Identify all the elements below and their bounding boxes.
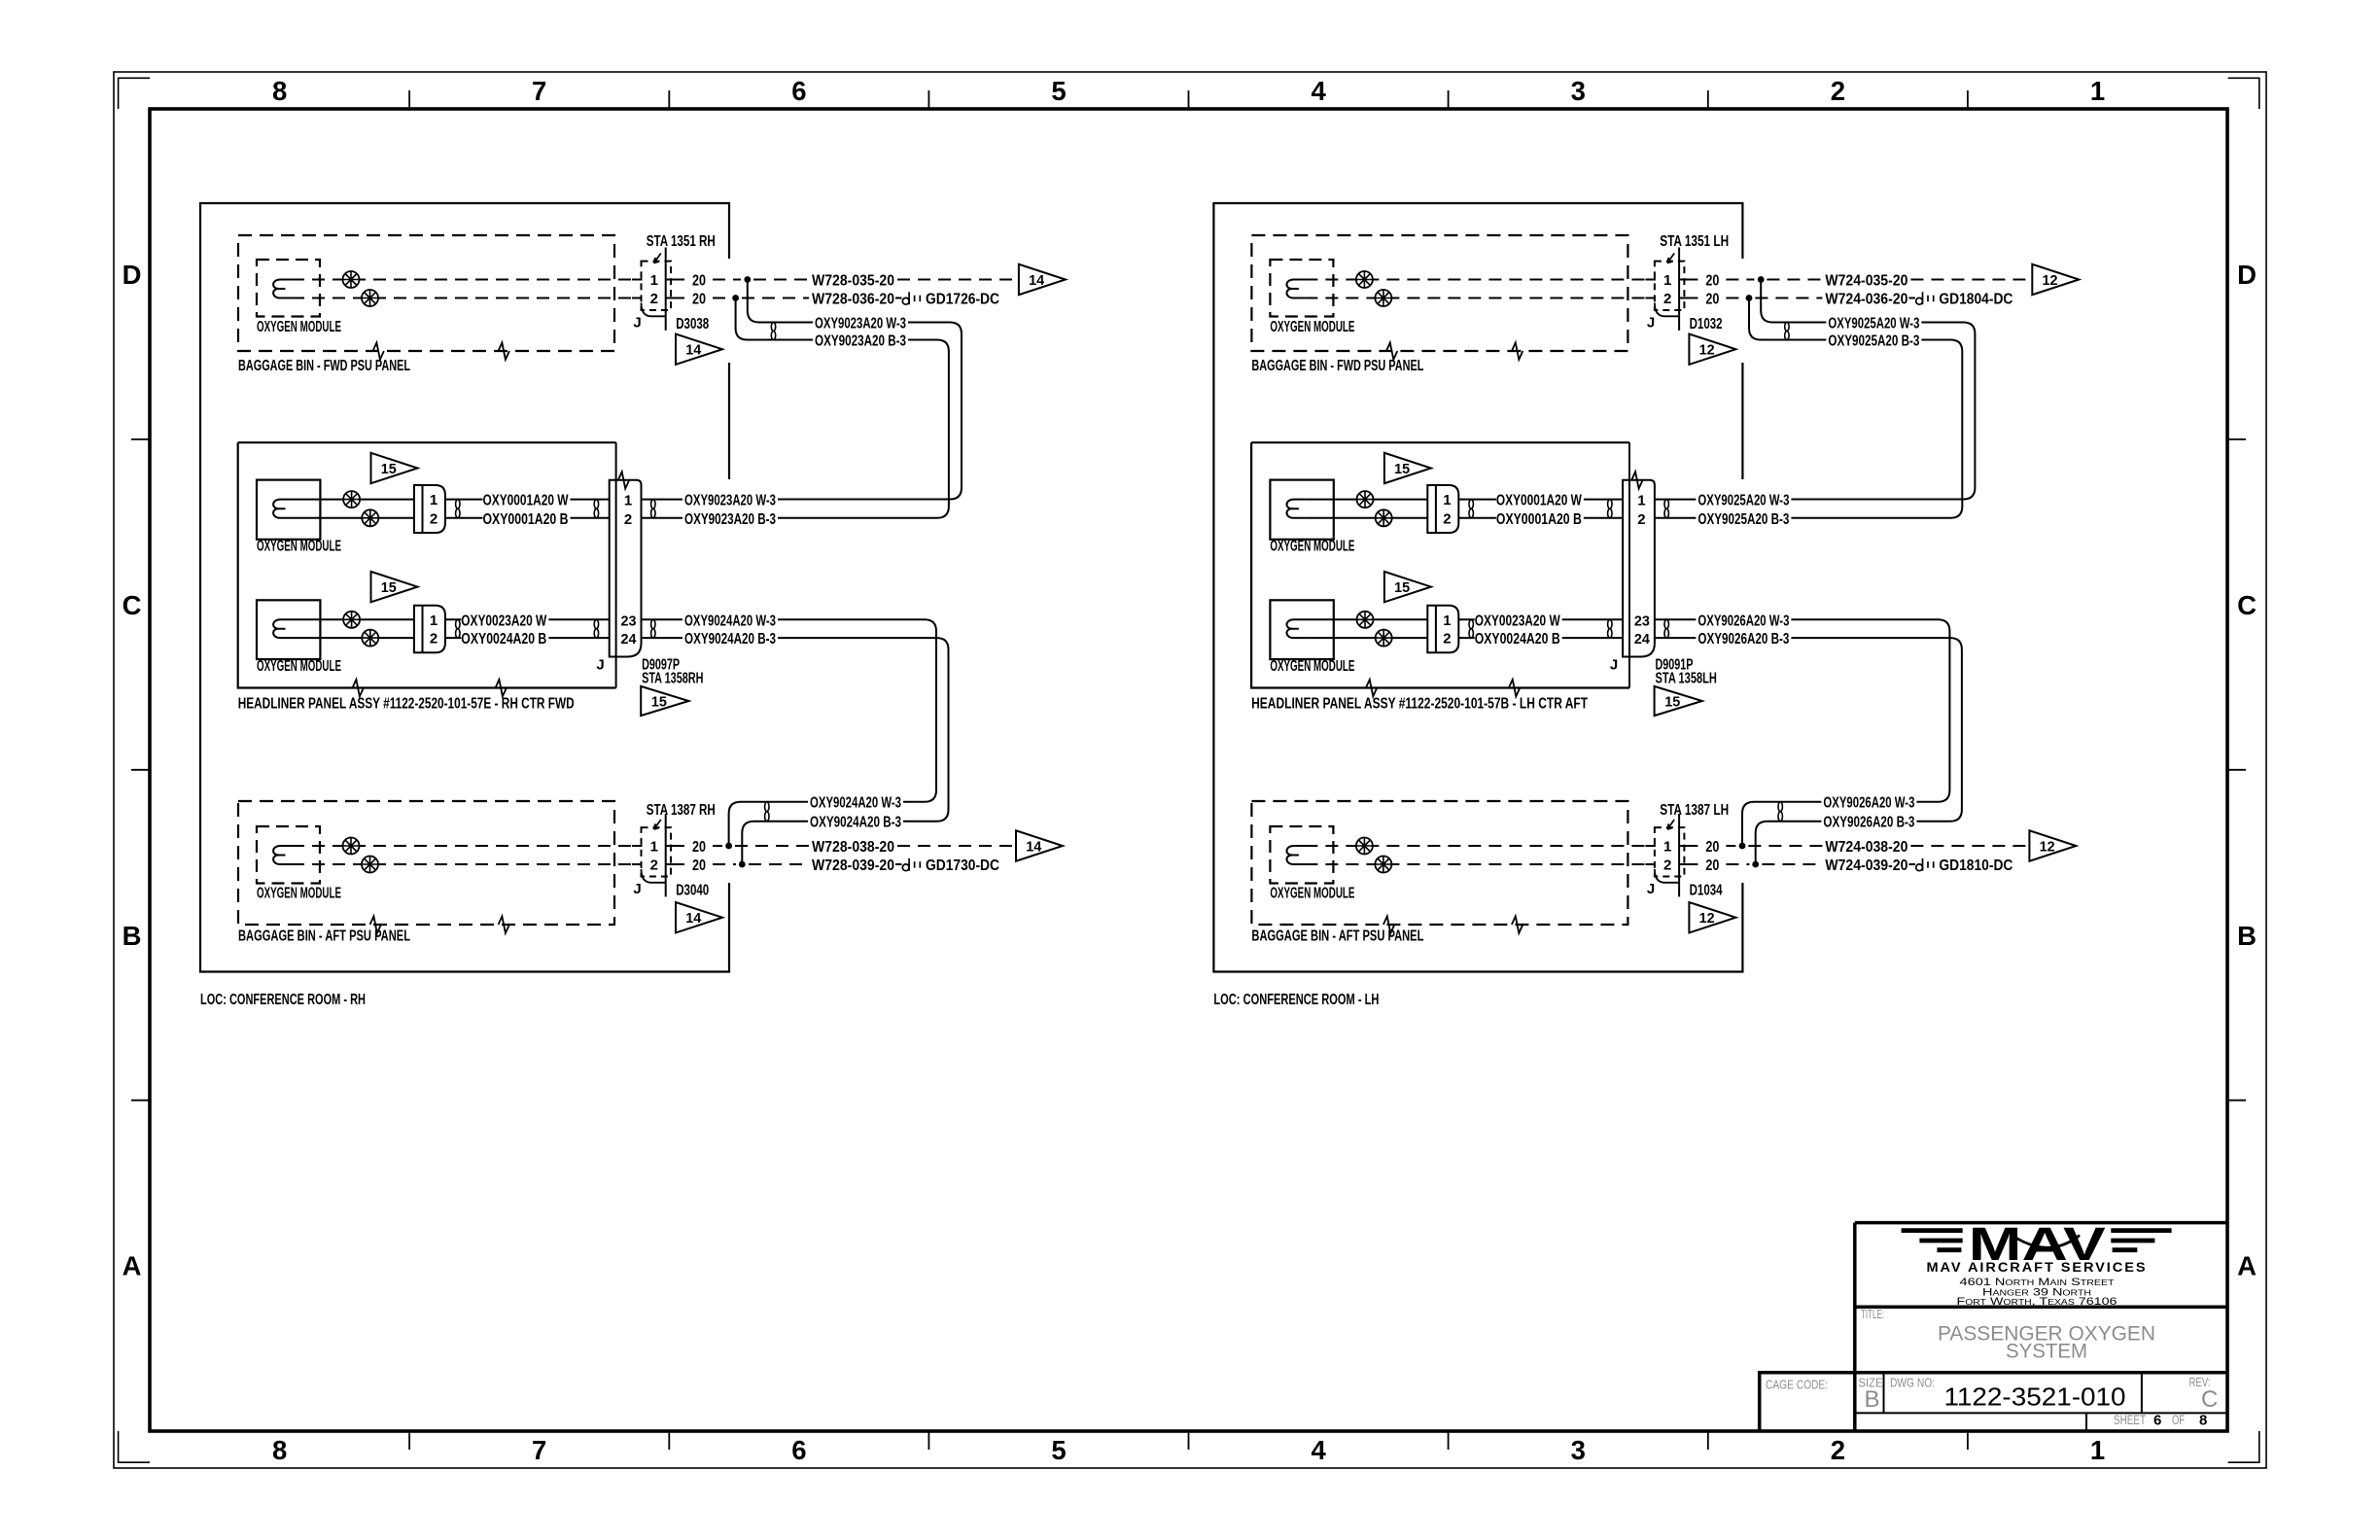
dashed box BAGGAGE BIN FWD PSU PANEL — [238, 235, 614, 351]
svg-text:24: 24 — [1634, 631, 1651, 647]
svg-text:STA 1351 RH: STA 1351 RH — [647, 233, 716, 250]
wire OXY9024A20 W-3 branch to AFT — [778, 619, 936, 801]
splice on FWD wire 1 — [1356, 271, 1373, 288]
svg-text:OXYGEN MODULE: OXYGEN MODULE — [257, 319, 341, 335]
wire W728-035-20 dashed — [753, 279, 809, 281]
oxygen module box headliner 2 — [257, 600, 320, 659]
oxygen generator element headliner 1 — [273, 500, 292, 518]
twisted pair before J connector module 2 — [1608, 619, 1612, 628]
svg-text:1: 1 — [430, 492, 437, 508]
splice on AFT wire 1 — [1356, 838, 1373, 855]
svg-text:DWG NO:: DWG NO: — [1890, 1376, 1935, 1390]
connector D1032 mating line — [1678, 248, 1680, 331]
svg-text:24: 24 — [621, 631, 638, 647]
svg-text:W724-035-20: W724-035-20 — [1825, 273, 1907, 290]
wire tick into shell pin2 — [632, 297, 643, 299]
flag 15 headliner module 2 — [371, 572, 418, 602]
MAV logo speed lines right — [2111, 1231, 2171, 1250]
svg-text:OXY9024A20 B-3: OXY9024A20 B-3 — [810, 815, 901, 831]
svg-text:OXY9026A20 W-3: OXY9026A20 W-3 — [1823, 795, 1914, 812]
svg-text:OXY0024A20 B: OXY0024A20 B — [1475, 631, 1560, 647]
oxygen generator element FWD — [1287, 280, 1306, 298]
divider rev cell — [2141, 1373, 2143, 1414]
wire stub AFT pin2 with gauge 20 — [1679, 863, 1697, 865]
twisted pair right of J pins 1-2 — [651, 500, 655, 509]
svg-text:OXY0023A20 W: OXY0023A20 W — [1475, 612, 1561, 629]
svg-text:GD1726-DC: GD1726-DC — [926, 292, 999, 308]
svg-text:14: 14 — [685, 342, 702, 359]
svg-text:OXY9024A20 W-3: OXY9024A20 W-3 — [684, 612, 776, 629]
svg-text:1: 1 — [2090, 1435, 2105, 1465]
svg-text:2: 2 — [650, 857, 658, 874]
junction dot FWD wire2 — [732, 295, 739, 301]
svg-text:OXYGEN MODULE: OXYGEN MODULE — [1270, 319, 1354, 335]
svg-text:3: 3 — [1571, 1435, 1586, 1465]
twisted pair after plug module 1 — [456, 500, 460, 509]
wire tick into AFT shell pin1 — [1645, 845, 1656, 847]
svg-text:LOC: CONFERENCE ROOM - LH: LOC: CONFERENCE ROOM - LH — [1213, 992, 1379, 1008]
headliner panel box LH — [1251, 442, 1629, 687]
oxygen generator element AFT — [1287, 846, 1306, 864]
wire OXY0001A20 B — [1458, 517, 1496, 519]
junction dot AFT wire2 — [1752, 861, 1759, 868]
wire OXY9023A20 B-3 branch from FWD — [736, 298, 813, 340]
svg-text:HEADLINER PANEL ASSY #1122-252: HEADLINER PANEL ASSY #1122-2520-101-57E … — [238, 696, 575, 713]
twisted pair symbol FWD branch — [1785, 323, 1789, 332]
svg-text:LOC: CONFERENCE ROOM - RH: LOC: CONFERENCE ROOM - RH — [200, 992, 366, 1008]
svg-text:23: 23 — [1634, 612, 1650, 629]
dashed box oxygen module FWD — [257, 260, 320, 317]
break symbols on FWD dashed box — [1386, 342, 1397, 359]
wire tick into AFT shell pin1 — [632, 845, 643, 847]
svg-text:OXY9023A20 B-3: OXY9023A20 B-3 — [815, 333, 906, 350]
svg-text:OXYGEN MODULE: OXYGEN MODULE — [1270, 539, 1354, 555]
twisted pair AFT branch — [1778, 802, 1782, 812]
break symbols on FWD dashed box — [373, 342, 384, 359]
svg-text:1: 1 — [430, 612, 437, 629]
svg-text:1: 1 — [1443, 612, 1451, 629]
svg-text:BAGGAGE BIN - FWD PSU PANEL: BAGGAGE BIN - FWD PSU PANEL — [238, 358, 410, 374]
wire J pin24 OXY9026A20 B-3 — [1655, 637, 1697, 639]
svg-text:OXYGEN MODULE: OXYGEN MODULE — [1270, 886, 1354, 902]
svg-text:14: 14 — [1029, 272, 1045, 289]
svg-text:3: 3 — [1571, 76, 1586, 106]
svg-text:J: J — [1647, 315, 1655, 332]
zone column ticks top — [408, 90, 410, 109]
twisted pair symbol FWD branch — [771, 323, 775, 332]
break symbols on headliner box bottom — [353, 680, 364, 696]
svg-text:OXY0023A20 W: OXY0023A20 W — [461, 612, 547, 629]
wire oxygen module FWD pin2 dashed — [1305, 297, 1651, 299]
svg-text:1: 1 — [1663, 272, 1671, 289]
svg-text:D: D — [2237, 260, 2257, 290]
svg-text:2: 2 — [650, 291, 658, 307]
wire oxygen module AFT pin2 dashed — [1305, 863, 1651, 865]
svg-text:OXY0001A20 B: OXY0001A20 B — [1496, 511, 1582, 528]
svg-text:5: 5 — [1051, 76, 1066, 106]
svg-text:2: 2 — [1663, 857, 1671, 874]
svg-text:2: 2 — [430, 631, 437, 647]
svg-text:BAGGAGE BIN - AFT PSU PANEL: BAGGAGE BIN - AFT PSU PANEL — [1251, 928, 1423, 945]
svg-text:W728-039-20: W728-039-20 — [812, 857, 894, 874]
flag 15 below J connector — [1655, 686, 1702, 716]
title block divider above sheet row — [1855, 1412, 2227, 1414]
plug connector module 1 — [414, 485, 445, 533]
title block divider under logo — [1855, 1306, 2227, 1310]
headliner panel box RH — [238, 442, 616, 687]
connector D3040 shell dashed — [642, 827, 672, 876]
wire OXY0001A20 W — [1458, 499, 1496, 501]
svg-text:1122-3521-010: 1122-3521-010 — [1944, 1382, 2126, 1412]
break symbols on AFT dashed box — [1383, 916, 1394, 932]
oxygen module box headliner 1 — [257, 480, 320, 540]
headliner box right edge / connector spine — [615, 442, 617, 687]
svg-text:SHEET: SHEET — [2114, 1413, 2146, 1427]
svg-text:2: 2 — [1663, 291, 1671, 307]
wire OXY0001A20 W — [445, 499, 483, 501]
headliner box right edge / connector spine — [1628, 442, 1630, 687]
svg-text:7: 7 — [532, 76, 546, 106]
break symbols on AFT dashed box — [370, 916, 381, 932]
wire oxygen module FWD pin2 dashed — [292, 297, 638, 299]
splice on AFT wire 2 — [1375, 857, 1391, 873]
svg-text:J: J — [596, 657, 604, 674]
connector D1034 keying arrow — [1667, 820, 1674, 829]
wire J pin2 OXY9025A20 B-3 — [1655, 517, 1697, 519]
connector D3038 shell dashed — [642, 262, 672, 310]
svg-text:OXY0001A20 W: OXY0001A20 W — [1496, 493, 1583, 509]
wire W724-035-20 dashed — [1767, 279, 1822, 281]
corner trim marks — [119, 78, 150, 109]
svg-text:2: 2 — [624, 511, 632, 528]
svg-text:W724-036-20: W724-036-20 — [1825, 292, 1907, 308]
splice module 1 wire2 — [362, 509, 378, 526]
twisted pair after plug module 2 — [1469, 619, 1473, 628]
flag 15 below J connector — [641, 686, 688, 716]
svg-text:20: 20 — [692, 273, 706, 290]
svg-text:20: 20 — [692, 292, 706, 308]
svg-text:W728-035-20: W728-035-20 — [812, 273, 894, 290]
svg-text:OXY0024A20 B: OXY0024A20 B — [461, 631, 546, 647]
wire OXY0023A20 W — [445, 618, 461, 620]
wire J pin2 OXY9023A20 B-3 — [642, 517, 683, 519]
oxygen generator element headliner 1 — [1287, 500, 1306, 518]
svg-text:GD1804-DC: GD1804-DC — [1939, 292, 2012, 308]
svg-text:J: J — [633, 881, 641, 897]
svg-text:OXY9025A20 W-3: OXY9025A20 W-3 — [1828, 316, 1919, 332]
wire oxygen module FWD pin1 dashed — [1305, 279, 1651, 281]
svg-text:1: 1 — [1663, 839, 1671, 856]
wire W728-038-20 dashed — [735, 845, 809, 847]
svg-text:2: 2 — [1637, 511, 1645, 528]
wire OXY0024A20 B — [1458, 637, 1474, 639]
svg-text:15: 15 — [1394, 579, 1410, 596]
svg-text:STA 1358RH: STA 1358RH — [642, 671, 703, 687]
splice on FWD wire 1 — [343, 271, 360, 288]
svg-text:6: 6 — [2153, 1413, 2161, 1429]
splice on FWD wire 2 — [1375, 290, 1391, 306]
twisted pair right of J pins 23-24 — [1664, 619, 1668, 628]
svg-text:OXY9024A20 W-3: OXY9024A20 W-3 — [810, 795, 901, 812]
svg-text:1: 1 — [650, 839, 658, 856]
connector D3038 keying arrow — [654, 254, 661, 263]
twisted pair before J connector module 1 — [594, 500, 598, 509]
connector D1032 keying arrow — [1667, 254, 1674, 263]
wire OXY0024A20 B — [445, 637, 461, 639]
svg-text:GD1730-DC: GD1730-DC — [926, 857, 999, 874]
svg-text:D: D — [122, 260, 142, 290]
svg-text:OXY9023A20 W-3: OXY9023A20 W-3 — [684, 493, 776, 509]
wire stub pin2 with gauge 20 — [1679, 297, 1697, 299]
wire module 1 pin2 to plug — [292, 517, 414, 519]
dashed box BAGGAGE BIN FWD PSU PANEL — [1251, 235, 1627, 351]
twisted pair after plug module 1 — [1469, 500, 1473, 509]
break symbol on J shell top edge — [618, 472, 629, 488]
svg-text:4: 4 — [1311, 76, 1326, 106]
oxygen module box headliner 1 — [1270, 480, 1333, 540]
wire stub AFT pin2 with gauge 20 — [666, 863, 684, 865]
svg-text:J: J — [1610, 657, 1618, 674]
svg-text:4: 4 — [1311, 1435, 1326, 1465]
wire OXY0001A20 B — [445, 517, 483, 519]
connector D3038 mating line — [665, 248, 667, 331]
svg-text:2: 2 — [1443, 510, 1451, 527]
junction dot AFT wire1 — [725, 843, 732, 850]
svg-text:8: 8 — [2199, 1413, 2207, 1429]
wire tick into shell pin1 — [632, 279, 643, 281]
svg-text:D3038: D3038 — [676, 316, 709, 332]
wire stub pin2 with gauge 20 — [666, 297, 684, 299]
connector D3038 backshell arc — [642, 303, 666, 317]
svg-text:OXY9023A20 W-3: OXY9023A20 W-3 — [815, 316, 906, 332]
cage code box — [1760, 1373, 1855, 1431]
wire oxygen module FWD pin1 dashed — [292, 279, 638, 281]
svg-text:OF: OF — [2172, 1413, 2185, 1427]
svg-text:OXY9026A20 B-3: OXY9026A20 B-3 — [1823, 815, 1914, 831]
flag sheet ref AFT inner — [1689, 902, 1735, 932]
divider size cell — [1883, 1373, 1885, 1414]
svg-text:A: A — [122, 1251, 142, 1281]
title block divider above dwg row — [1760, 1371, 2227, 1375]
wire OXY9025A20 B-3 branch from FWD — [1749, 298, 1826, 340]
wire J pin1 OXY9023A20 W-3 — [642, 499, 683, 501]
flag 15 headliner module 2 — [1384, 572, 1431, 602]
svg-text:SYSTEM: SYSTEM — [2006, 1340, 2087, 1363]
MAV logo speed lines left — [1902, 1231, 1963, 1250]
svg-text:OXY9026A20 W-3: OXY9026A20 W-3 — [1697, 612, 1789, 629]
oxygen generator element FWD — [273, 280, 292, 298]
oxygen generator element AFT — [273, 846, 292, 864]
wire module 1 pin1 to plug — [292, 499, 414, 501]
flag sheet ref FWD inner — [1689, 334, 1735, 365]
svg-text:2: 2 — [1443, 631, 1451, 647]
svg-text:OXYGEN MODULE: OXYGEN MODULE — [1270, 658, 1354, 675]
svg-text:A: A — [2237, 1251, 2257, 1281]
svg-text:OXY9025A20 B-3: OXY9025A20 B-3 — [1697, 511, 1789, 528]
connector D9097P shell — [610, 480, 642, 657]
svg-text:15: 15 — [1664, 694, 1680, 711]
svg-text:D3040: D3040 — [676, 883, 709, 899]
svg-text:BAGGAGE BIN - AFT PSU PANEL: BAGGAGE BIN - AFT PSU PANEL — [238, 928, 410, 945]
twisted pair right of J pins 1-2 — [1664, 500, 1668, 509]
svg-text:20: 20 — [1705, 839, 1719, 856]
inner sheet border — [150, 109, 2227, 1431]
twisted pair before J connector module 1 — [1608, 500, 1612, 509]
svg-text:OXY0001A20 B: OXY0001A20 B — [483, 511, 569, 528]
svg-text:6: 6 — [791, 76, 806, 106]
svg-text:1: 1 — [1637, 493, 1645, 509]
outer box LOC CONFERENCE ROOM RH — [200, 203, 729, 972]
svg-text:OXY0001A20 W: OXY0001A20 W — [483, 493, 570, 509]
connector D1032 backshell arc — [1655, 303, 1679, 317]
connector D3040 keying arrow — [654, 820, 661, 829]
svg-text:OXYGEN MODULE: OXYGEN MODULE — [257, 658, 341, 675]
svg-text:HEADLINER PANEL ASSY #1122-252: HEADLINER PANEL ASSY #1122-2520-101-57B … — [1251, 696, 1588, 713]
wire OXY9024A20 B-3 branch to AFT — [778, 638, 949, 822]
svg-text:C: C — [2201, 1386, 2218, 1413]
flag sheet ref FWD inner — [676, 334, 722, 365]
wire stub pin1 with gauge 20 — [666, 279, 684, 281]
wire oxygen module AFT pin1 dashed — [292, 845, 638, 847]
wire module 2 pin1 to plug — [1305, 618, 1427, 620]
splice module 1 wire2 — [1376, 509, 1392, 526]
junction dot AFT wire2 — [739, 861, 746, 868]
svg-text:20: 20 — [1705, 273, 1719, 290]
svg-text:OXY9025A20 W-3: OXY9025A20 W-3 — [1697, 493, 1789, 509]
svg-text:20: 20 — [692, 839, 706, 856]
wire J pin23 OXY9026A20 W-3 — [1655, 618, 1697, 620]
splice on FWD wire 2 — [362, 290, 378, 306]
svg-text:GD1810-DC: GD1810-DC — [1939, 857, 2012, 874]
splice module 2 wire2 — [1376, 630, 1392, 647]
svg-text:TITLE:: TITLE: — [1861, 1307, 1884, 1321]
ground splice GD1804-DC — [1916, 297, 1923, 304]
break symbols on headliner box bottom — [1366, 680, 1377, 696]
flag sheet ref 12 FWD right — [2032, 264, 2079, 295]
svg-text:1: 1 — [650, 272, 658, 289]
plug connector module 1 — [1427, 485, 1458, 533]
wire J pin24 OXY9024A20 B-3 — [642, 637, 683, 639]
wire oxygen module AFT pin1 dashed — [1305, 845, 1651, 847]
svg-text:B: B — [2237, 921, 2257, 951]
oxygen module box headliner 2 — [1270, 600, 1333, 659]
ground splice GD1810-DC — [1916, 864, 1923, 871]
flag sheet ref 14 AFT right — [1016, 830, 1063, 860]
svg-text:J: J — [1647, 881, 1655, 897]
dashed box BAGGAGE BIN AFT PSU PANEL — [1251, 801, 1627, 925]
junction dot FWD wire1 — [744, 276, 751, 283]
flag sheet ref AFT inner — [676, 902, 722, 932]
wire OXY9026A20 W-3 branch to AFT — [1791, 619, 1949, 801]
svg-text:8: 8 — [272, 1435, 287, 1465]
svg-text:OXY9025A20 B-3: OXY9025A20 B-3 — [1828, 333, 1919, 350]
svg-text:20: 20 — [1705, 857, 1719, 874]
wire J pin23 OXY9024A20 W-3 — [642, 618, 683, 620]
svg-text:1: 1 — [2090, 76, 2105, 106]
svg-text:12: 12 — [2043, 272, 2058, 289]
splice on AFT wire 1 — [343, 838, 360, 855]
svg-text:W728-036-20: W728-036-20 — [812, 292, 894, 308]
svg-text:15: 15 — [1394, 461, 1410, 477]
wire module 2 pin2 to plug — [292, 637, 414, 639]
svg-text:BAGGAGE BIN - FWD PSU PANEL: BAGGAGE BIN - FWD PSU PANEL — [1251, 358, 1423, 374]
svg-text:1: 1 — [624, 493, 632, 509]
svg-text:OXY9023A20 B-3: OXY9023A20 B-3 — [684, 511, 776, 528]
svg-text:23: 23 — [621, 612, 637, 629]
break symbol on J shell top edge — [1631, 472, 1642, 488]
zone column ticks bottom — [408, 1431, 410, 1450]
svg-text:MAV AIRCRAFT SERVICES: MAV AIRCRAFT SERVICES — [1927, 1260, 2148, 1275]
connector D1034 shell dashed — [1655, 827, 1685, 876]
connector D3040 backshell arc — [642, 869, 666, 883]
svg-text:W728-038-20: W728-038-20 — [812, 839, 894, 856]
svg-text:J: J — [633, 315, 641, 332]
svg-text:20: 20 — [1705, 292, 1719, 308]
MAV logo swoosh — [2012, 1236, 2080, 1248]
splice module 2 wire1 — [343, 612, 360, 628]
svg-text:STA 1351 LH: STA 1351 LH — [1660, 233, 1729, 250]
divider sheet cell — [2085, 1413, 2087, 1431]
splice on AFT wire 2 — [362, 857, 378, 873]
splice module 1 wire1 — [343, 491, 360, 507]
svg-text:W724-039-20: W724-039-20 — [1825, 857, 1907, 874]
svg-text:12: 12 — [1699, 342, 1715, 359]
splice module 1 wire1 — [1357, 491, 1374, 507]
svg-text:1: 1 — [1443, 492, 1451, 508]
oxygen generator element headliner 2 — [273, 619, 292, 638]
wire module 1 pin1 to plug — [1305, 499, 1427, 501]
splice module 2 wire1 — [1357, 612, 1374, 628]
wire tick into AFT shell pin2 — [632, 863, 643, 865]
flag 15 headliner module 1 — [371, 453, 418, 483]
svg-text:20: 20 — [692, 857, 706, 874]
plug connector module 2 — [414, 606, 445, 653]
svg-text:6: 6 — [791, 1435, 806, 1465]
wire stub pin1 with gauge 20 — [1679, 279, 1697, 281]
svg-text:14: 14 — [685, 910, 702, 927]
svg-text:15: 15 — [651, 694, 667, 711]
twisted pair before J connector module 2 — [594, 619, 598, 628]
ground splice GD1730-DC — [902, 864, 909, 871]
svg-text:OXYGEN MODULE: OXYGEN MODULE — [257, 539, 341, 555]
wire OXY9023A20 W-3 branch from FWD — [748, 280, 813, 323]
wire tick into shell pin1 — [1645, 279, 1656, 281]
flag sheet ref 12 AFT right — [2029, 830, 2076, 860]
junction dot FWD wire2 — [1746, 295, 1753, 301]
wire module 2 pin2 to plug — [1305, 637, 1427, 639]
svg-text:12: 12 — [2040, 839, 2055, 856]
wire W724-036-20 dashed — [1755, 297, 1822, 299]
plug connector module 2 — [1427, 606, 1458, 653]
svg-text:CAGE CODE:: CAGE CODE: — [1766, 1378, 1828, 1392]
twisted pair after plug module 2 — [456, 619, 460, 628]
connector D1032 shell dashed — [1655, 262, 1685, 310]
connector D1034 mating line — [1678, 814, 1680, 896]
svg-text:STA 1387 LH: STA 1387 LH — [1660, 802, 1729, 819]
connector D9091P shell — [1623, 480, 1655, 657]
svg-text:7: 7 — [532, 1435, 546, 1465]
dashed box oxygen module AFT — [257, 826, 320, 884]
svg-text:8: 8 — [272, 76, 287, 106]
twisted pair AFT branch — [765, 802, 769, 812]
svg-text:OXY9024A20 B-3: OXY9024A20 B-3 — [684, 631, 776, 647]
wire W728-039-20 dashed — [749, 863, 809, 865]
svg-text:15: 15 — [381, 461, 397, 477]
wire W724-038-20 dashed — [1748, 845, 1822, 847]
wire J pin1 OXY9025A20 W-3 — [1655, 499, 1697, 501]
svg-text:2: 2 — [1831, 76, 1845, 106]
title block frame — [1855, 1223, 2227, 1431]
